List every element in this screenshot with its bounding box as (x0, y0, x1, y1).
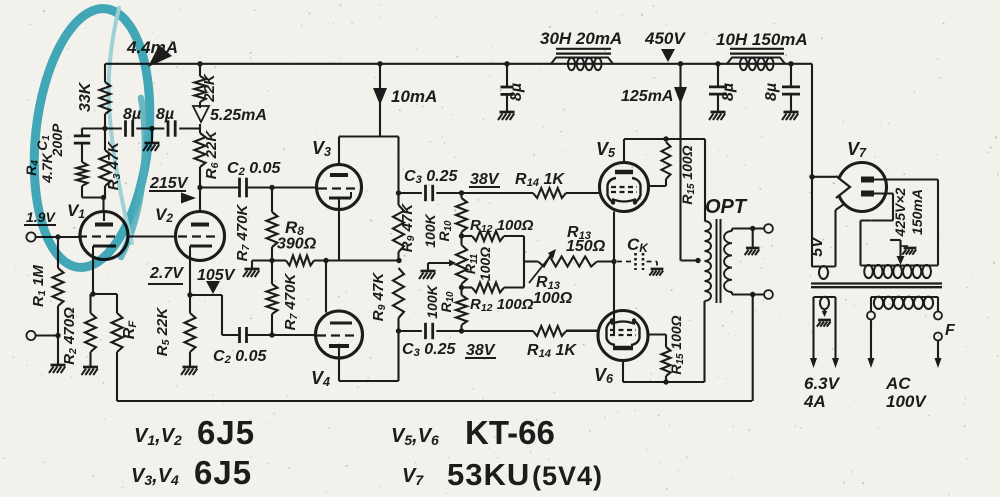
svg-text:6J5: 6J5 (194, 454, 252, 491)
svg-text:10mA: 10mA (391, 87, 437, 106)
svg-text:R7 470K: R7 470K (282, 272, 300, 330)
svg-text:R2 470Ω: R2 470Ω (61, 307, 79, 365)
svg-text:200P: 200P (49, 123, 65, 157)
svg-text:8µ: 8µ (763, 83, 780, 101)
svg-text:(5V4): (5V4) (532, 461, 603, 491)
svg-text:F: F (945, 322, 956, 339)
svg-text:R7 470K: R7 470K (234, 203, 252, 261)
svg-text:8µ: 8µ (123, 106, 141, 123)
svg-text:R5 22K: R5 22K (154, 307, 172, 357)
svg-text:6J5: 6J5 (197, 414, 255, 451)
svg-text:33K: 33K (77, 81, 94, 112)
svg-text:425V×2: 425V×2 (892, 187, 908, 237)
svg-text:R12 100Ω: R12 100Ω (470, 217, 534, 235)
svg-text:R14 1K: R14 1K (515, 171, 565, 189)
svg-text:R9 47K: R9 47K (399, 203, 417, 253)
svg-text:100K: 100K (424, 284, 440, 318)
svg-text:R1 1M: R1 1M (30, 265, 48, 307)
svg-text:390Ω: 390Ω (277, 236, 317, 253)
svg-text:R6 22K: R6 22K (203, 130, 221, 180)
svg-text:KT-66: KT-66 (465, 414, 555, 451)
svg-text:2.7V: 2.7V (149, 265, 184, 282)
svg-text:125mA: 125mA (621, 88, 673, 105)
svg-text:8µ: 8µ (156, 106, 174, 123)
svg-text:5.25mA: 5.25mA (210, 107, 267, 124)
svg-text:150mA: 150mA (909, 189, 925, 235)
svg-text:C3 0.25: C3 0.25 (404, 168, 458, 186)
svg-text:R15 100Ω: R15 100Ω (679, 145, 697, 204)
svg-text:100Ω: 100Ω (533, 290, 573, 307)
svg-text:R14 1K: R14 1K (527, 342, 577, 360)
svg-text:105V: 105V (197, 267, 236, 284)
svg-text:22K: 22K (201, 73, 218, 103)
svg-text:100K: 100K (422, 213, 438, 247)
svg-text:30H 20mA: 30H 20mA (540, 29, 622, 48)
svg-text:10H 150mA: 10H 150mA (716, 30, 808, 49)
svg-text:OPT: OPT (705, 196, 748, 218)
svg-text:8µ: 8µ (508, 83, 525, 101)
svg-text:4A: 4A (803, 392, 826, 411)
svg-text:C3 0.25: C3 0.25 (402, 341, 456, 359)
svg-text:100V: 100V (886, 392, 927, 411)
svg-text:R9 47K: R9 47K (370, 272, 388, 322)
svg-text:450V: 450V (644, 29, 686, 48)
svg-text:150Ω: 150Ω (566, 238, 606, 255)
svg-text:53KU: 53KU (447, 457, 530, 492)
svg-text:215V: 215V (149, 175, 189, 192)
svg-text:R12 100Ω: R12 100Ω (470, 296, 534, 314)
svg-text:C2 0.05: C2 0.05 (227, 160, 281, 178)
svg-text:4.7K: 4.7K (39, 152, 55, 183)
svg-text:38V: 38V (470, 171, 500, 188)
svg-text:AC: AC (885, 374, 911, 393)
svg-text:C2 0.05: C2 0.05 (213, 348, 267, 366)
svg-text:R15 100Ω: R15 100Ω (668, 315, 686, 374)
svg-text:100Ω: 100Ω (477, 247, 493, 281)
svg-text:6.3V: 6.3V (804, 374, 841, 393)
svg-text:8µ: 8µ (720, 83, 737, 101)
svg-text:38V: 38V (466, 342, 496, 359)
